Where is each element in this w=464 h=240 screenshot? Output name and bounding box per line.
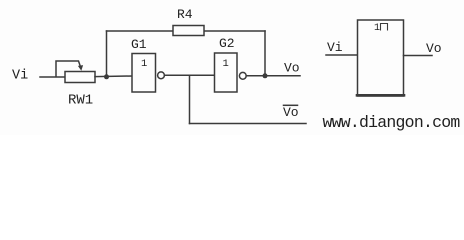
thick bottom edge of block xyxy=(357,94,404,97)
wire G1 output to G2 input xyxy=(164,74,214,76)
wire RW1 to G1 input xyxy=(95,75,132,78)
inversion bubble of G1 xyxy=(158,72,165,79)
resistor R4 xyxy=(173,26,204,36)
svg-text:1: 1 xyxy=(223,58,229,70)
wire tap drop to Vo-bar xyxy=(189,75,191,123)
wire bottom run to Vo-bar xyxy=(190,123,307,125)
svg-text:Vi: Vi xyxy=(327,40,343,55)
svg-text:Vi: Vi xyxy=(12,69,28,84)
op-amp U2 inverter G2 body xyxy=(215,53,238,92)
wire feedback drop right xyxy=(264,31,266,76)
op-amp U3 schmitt block body xyxy=(358,20,404,96)
op-amp U1 inverter G1 body xyxy=(132,54,156,93)
node junction A (RW1 / feedback) xyxy=(104,74,109,79)
wire top rail right of R4 xyxy=(204,30,265,32)
wire block output xyxy=(404,55,433,57)
wire feedback riser left xyxy=(106,31,108,77)
svg-text:G2: G2 xyxy=(219,36,235,51)
svg-text:R4: R4 xyxy=(177,7,193,22)
svg-text:Vo: Vo xyxy=(284,61,300,76)
svg-text:Vo: Vo xyxy=(426,41,442,56)
inversion bubble of G2 xyxy=(239,72,246,79)
wire Vi input to RW1 xyxy=(40,76,65,78)
wire top rail left of R4 xyxy=(107,30,174,32)
resistor RW1 (rheostat body) xyxy=(65,72,95,83)
rheostat wiper arrow of RW1 xyxy=(56,61,81,77)
svg-text:1: 1 xyxy=(374,23,380,34)
wire G2 output to Vo xyxy=(246,75,300,77)
svg-text:RW1: RW1 xyxy=(68,93,93,109)
svg-text:G1: G1 xyxy=(131,37,147,52)
node junction B (output / feedback) xyxy=(263,73,268,78)
svg-text:Vo: Vo xyxy=(283,105,299,120)
svg-text:1: 1 xyxy=(141,58,147,70)
svg-text:www.diangon.com: www.diangon.com xyxy=(323,113,461,132)
wire block input xyxy=(326,54,358,56)
